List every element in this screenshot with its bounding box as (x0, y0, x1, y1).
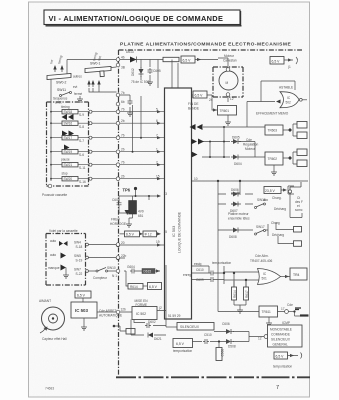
svg-text:7: 7 (156, 134, 158, 138)
svg-text:Cabestan: Cabestan (223, 59, 237, 63)
svg-text:7b: 7b (121, 91, 125, 95)
svg-text:SW11: SW11 (57, 88, 66, 92)
svg-text:SW10: SW10 (107, 266, 116, 270)
svg-text:6,5 V: 6,5 V (149, 285, 158, 289)
svg-text:pause: pause (61, 158, 70, 162)
svg-text:TR4: TR4 (293, 273, 300, 277)
svg-text:R617: R617 (245, 290, 249, 298)
svg-text:SW21: SW21 (64, 163, 73, 167)
svg-text:R614: R614 (233, 290, 237, 298)
svg-text:Charg.: Charg. (272, 196, 282, 200)
svg-text:COMMANDE: COMMANDE (271, 333, 290, 337)
svg-text:Compteur: Compteur (93, 276, 108, 280)
svg-text:Régulation: Régulation (243, 143, 258, 147)
svg-text:S-16: S-16 (79, 180, 86, 184)
svg-text:SW17: SW17 (256, 225, 265, 229)
svg-text:SW15: SW15 (257, 198, 266, 202)
svg-text:scmc: scmc (295, 208, 303, 212)
svg-text:2b: 2b (121, 175, 125, 179)
svg-text:SW7: SW7 (74, 268, 81, 272)
svg-text:D606: D606 (231, 188, 239, 192)
svg-text:74683: 74683 (45, 387, 54, 391)
svg-text:1: 1 (156, 148, 158, 152)
svg-text:S-22: S-22 (76, 272, 83, 276)
svg-text:Φ 12: Φ 12 (145, 233, 152, 237)
svg-text:7b: 7b (121, 134, 125, 138)
svg-text:MONOSTABLE: MONOSTABLE (270, 328, 292, 332)
svg-text:S-7: S-7 (79, 139, 84, 143)
svg-text:SW0-1: SW0-1 (90, 62, 100, 66)
svg-text:Cde Alim.: Cde Alim. (255, 254, 269, 258)
svg-text:4V9: 4V9 (138, 210, 144, 214)
svg-text:LOGIQUE DE COMMANDE: LOGIQUE DE COMMANDE (178, 211, 182, 253)
svg-text:6,5 V: 6,5 V (183, 58, 192, 62)
svg-text:TR407-405-406: TR407-405-406 (250, 259, 273, 263)
svg-text:Cde: Cde (287, 303, 293, 307)
svg-text:6,5 V: 6,5 V (126, 233, 135, 237)
svg-text:SW20: SW20 (64, 177, 73, 181)
svg-text:ensemble têtes: ensemble têtes (228, 217, 250, 221)
svg-text:D508: D508 (228, 345, 236, 349)
svg-text:AIMANT: AIMANT (39, 299, 51, 303)
svg-text:7b: 7b (121, 161, 125, 165)
svg-text:PLATINE ALIMENTATIONS/COMMANDE: PLATINE ALIMENTATIONS/COMMANDE ELECTRO-M… (120, 42, 291, 48)
svg-text:Charg: Charg (271, 221, 280, 225)
svg-text:ICMP: ICMP (282, 321, 290, 325)
svg-text:Platine moteur: Platine moteur (228, 212, 249, 216)
svg-text:GENERAL: GENERAL (273, 343, 288, 347)
svg-text:6: 6 (156, 119, 158, 123)
svg-text:502: 502 (286, 101, 292, 105)
svg-text:Moteur: Moteur (245, 147, 256, 151)
svg-text:SW19: SW19 (64, 150, 73, 154)
svg-text:SILENCIEUX: SILENCIEUX (180, 325, 200, 329)
svg-text:R614: R614 (130, 285, 138, 289)
svg-text:FIN DE: FIN DE (188, 102, 198, 106)
svg-text:C609: C609 (196, 278, 204, 282)
svg-text:auto: auto (50, 253, 56, 257)
svg-text:D621: D621 (154, 337, 162, 341)
svg-text:2b: 2b (121, 119, 125, 123)
svg-text:FREQ: FREQ (111, 218, 120, 222)
svg-text:15: 15 (164, 230, 168, 234)
svg-text:S-18: S-18 (76, 245, 83, 249)
svg-text:6b: 6b (121, 100, 125, 104)
svg-text:Cde ARRET: Cde ARRET (99, 309, 116, 313)
svg-text:Cde: Cde (246, 138, 252, 142)
svg-text:SW18: SW18 (64, 110, 73, 114)
svg-text:Capteur effet Hall: Capteur effet Hall (42, 337, 67, 341)
svg-text:6,5 V: 6,5 V (176, 342, 185, 346)
svg-text:3B: 3B (121, 66, 125, 70)
svg-text:D605: D605 (232, 136, 240, 140)
svg-text:IC 503: IC 503 (75, 308, 88, 313)
svg-text:fermé: fermé (74, 92, 82, 96)
svg-text:M: M (226, 81, 229, 85)
svg-text:S-9: S-9 (79, 113, 84, 117)
svg-text:Moteur: Moteur (224, 54, 235, 58)
svg-text:manque: manque (48, 266, 60, 270)
svg-text:15: 15 (156, 175, 160, 179)
svg-text:24: 24 (209, 98, 213, 102)
svg-text:D608: D608 (229, 235, 237, 239)
svg-text:SILENCIEUX: SILENCIEUX (271, 338, 291, 342)
svg-text:N 1: N 1 (112, 274, 117, 278)
svg-text:6,5 V: 6,5 V (276, 355, 285, 359)
svg-text:7: 7 (276, 385, 279, 391)
svg-text:7b: 7b (121, 108, 125, 112)
svg-text:C508: C508 (221, 349, 225, 357)
svg-text:SW17: SW17 (64, 136, 73, 140)
svg-text:TR602: TR602 (268, 157, 278, 161)
svg-text:C605: C605 (153, 69, 161, 73)
svg-text:S-8: S-8 (79, 125, 84, 129)
svg-text:temporisation: temporisation (273, 365, 292, 369)
svg-text:5: 5 (156, 108, 158, 112)
svg-text:BANDE: BANDE (188, 107, 199, 111)
svg-text:Décharg: Décharg (274, 207, 286, 211)
svg-text:Volet par la cassette: Volet par la cassette (49, 229, 78, 233)
svg-text:23,5 V: 23,5 V (265, 189, 276, 193)
svg-text:essig: essig (194, 262, 202, 266)
svg-text:12: 12 (258, 337, 262, 341)
svg-text:4b: 4b (121, 56, 125, 60)
svg-text:timing: timing (61, 105, 70, 109)
svg-text:AUTOMATIQUE: AUTOMATIQUE (99, 314, 122, 318)
svg-text:75 de IC 503: 75 de IC 503 (131, 80, 149, 84)
svg-text:C606: C606 (222, 322, 230, 326)
svg-text:6,5 V: 6,5 V (272, 59, 281, 63)
svg-text:D602: D602 (148, 320, 156, 324)
svg-text:L2: L2 (230, 97, 234, 101)
svg-text:enreg: enreg (183, 273, 191, 277)
svg-text:S-6: S-6 (79, 153, 84, 157)
svg-text:D615: D615 (144, 270, 152, 274)
svg-text:2b: 2b (121, 148, 125, 152)
svg-text:HORLOGE: HORLOGE (110, 222, 126, 226)
svg-text:C610: C610 (196, 268, 204, 272)
svg-text:20: 20 (121, 241, 125, 245)
svg-text:13: 13 (164, 192, 168, 196)
svg-text:10: 10 (194, 177, 198, 181)
svg-text:temporisation: temporisation (173, 349, 192, 353)
svg-text:G604: G604 (127, 265, 135, 269)
svg-text:auto: auto (50, 239, 56, 243)
svg-text:S-19: S-19 (76, 259, 83, 263)
svg-text:TR611: TR611 (262, 310, 272, 314)
svg-text:stop: stop (62, 172, 68, 176)
svg-text:EFFACEMENT MEMO: EFFACEMENT MEMO (256, 112, 289, 116)
svg-text:6,5 V: 6,5 V (195, 94, 204, 98)
svg-text:19: 19 (156, 240, 160, 244)
svg-text:C603: C603 (112, 198, 120, 202)
svg-text:TP6: TP6 (123, 188, 131, 193)
svg-text:C510: C510 (204, 333, 212, 337)
svg-text:ASTABLE: ASTABLE (279, 86, 293, 90)
svg-text:VI - ALIMENTATION/LOGIQUE DE C: VI - ALIMENTATION/LOGIQUE DE COMMANDE (49, 14, 224, 23)
svg-text:SW4: SW4 (74, 241, 81, 245)
svg-text:651: 651 (138, 214, 144, 218)
svg-text:6,5 V: 6,5 V (77, 294, 86, 298)
svg-text:IC 502: IC 502 (136, 312, 146, 316)
svg-text:D613: D613 (126, 50, 134, 54)
svg-text:D604: D604 (234, 162, 242, 166)
svg-text:Poussoir cassette: Poussoir cassette (42, 193, 67, 197)
svg-text:TR601: TR601 (220, 109, 230, 113)
svg-text:autres: autres (73, 75, 82, 79)
svg-text:SW0-2: SW0-2 (56, 81, 66, 85)
svg-text:S-11: S-11 (79, 166, 86, 170)
svg-text:temporisation: temporisation (212, 261, 231, 265)
svg-text:17: 17 (281, 307, 285, 311)
svg-text:SW5: SW5 (74, 254, 81, 258)
svg-text:IC 503: IC 503 (172, 226, 176, 237)
svg-text:(2: (2 (159, 306, 162, 310)
svg-text:evt: evt (73, 85, 77, 89)
svg-text:22b: 22b (121, 254, 127, 258)
svg-text:(1: (1 (288, 65, 291, 69)
svg-text:12b: 12b (121, 308, 127, 312)
svg-text:SW16: SW16 (64, 122, 73, 126)
svg-text:D612: D612 (131, 68, 135, 76)
svg-text:2: 2 (156, 161, 158, 165)
svg-text:TR603: TR603 (268, 129, 278, 133)
svg-text:51 59 29: 51 59 29 (168, 314, 181, 318)
svg-text:501: 501 (262, 277, 268, 281)
